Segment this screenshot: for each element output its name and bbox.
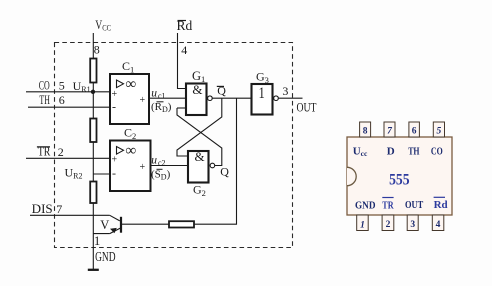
svg-text:+: +	[112, 155, 118, 166]
wire cross-couple G1in to Q	[177, 108, 222, 166]
svg-text:(SD): (SD)	[151, 169, 171, 182]
pin 4 box	[432, 215, 444, 231]
svg-text:∞: ∞	[126, 77, 137, 93]
wire CO pin5	[26, 91, 110, 93]
wire TH pin6	[28, 106, 110, 108]
svg-text:+: +	[140, 95, 146, 106]
nand gate G2	[188, 149, 215, 182]
wire G1 input3	[177, 107, 186, 109]
resistor R1	[90, 59, 96, 83]
svg-text:G3: G3	[256, 70, 269, 86]
svg-text:8: 8	[363, 127, 368, 137]
svg-text:(RD): (RD)	[151, 101, 172, 114]
svg-text:Rd: Rd	[434, 199, 448, 211]
wire R2 to R3	[92, 142, 94, 182]
comparator C1	[110, 74, 149, 124]
svg-text:5: 5	[437, 127, 442, 137]
resistor R4	[169, 221, 194, 227]
svg-text:V: V	[100, 218, 109, 232]
svg-text:u: u	[151, 154, 157, 166]
svg-text:1: 1	[94, 234, 100, 248]
svg-text:1: 1	[360, 221, 365, 231]
svg-text:TR: TR	[38, 144, 51, 159]
wire base to R4	[121, 223, 169, 225]
svg-text:4: 4	[181, 43, 187, 57]
ground	[88, 269, 99, 271]
svg-text:6: 6	[59, 93, 65, 107]
svg-text:-: -	[112, 100, 116, 114]
wire R1 to node	[92, 83, 94, 93]
svg-text:∞: ∞	[126, 143, 137, 159]
pin 7 box	[384, 122, 395, 137]
svg-text:C1: C1	[122, 59, 134, 75]
svg-text:-: -	[112, 166, 116, 180]
wire cross-couple Qbar to G2in	[177, 98, 222, 156]
pin 3 box	[407, 215, 418, 231]
label TR with overline	[382, 198, 394, 212]
wire uc1 C1 to G1	[149, 97, 186, 99]
wire DIS pin7 collector	[30, 214, 110, 216]
svg-text:+: +	[140, 162, 146, 173]
pin 6 box	[409, 122, 420, 137]
svg-text:c2: c2	[158, 158, 166, 167]
wire TR pin2	[26, 157, 110, 159]
svg-text:TH: TH	[39, 92, 50, 107]
package notch	[347, 167, 356, 185]
wire R3 down to GND	[92, 203, 94, 270]
svg-text:UR2: UR2	[65, 166, 83, 181]
transistor V	[93, 215, 121, 233]
wire uc2 C2 to G2	[151, 165, 189, 167]
svg-text:GND: GND	[95, 249, 116, 264]
svg-text:5: 5	[59, 79, 65, 93]
555 package body	[347, 137, 452, 215]
label (RD) with overline	[151, 101, 172, 114]
wire Qbar net	[212, 97, 251, 99]
svg-text:7: 7	[56, 202, 62, 216]
svg-text:G2: G2	[193, 183, 206, 199]
wire Rd pin4 down	[178, 33, 187, 89]
svg-text:OUT: OUT	[405, 199, 424, 211]
svg-text:Q: Q	[217, 84, 226, 98]
label Qbar	[217, 84, 227, 98]
svg-text:3: 3	[282, 84, 288, 98]
svg-text:GND: GND	[355, 200, 376, 212]
svg-text:CO: CO	[39, 78, 50, 93]
Vcc label	[95, 18, 111, 32]
dashed IC boundary box	[55, 43, 293, 248]
svg-text:8: 8	[94, 43, 100, 57]
svg-text:C2: C2	[124, 126, 136, 142]
svg-text:Q: Q	[220, 165, 229, 179]
inverter G3	[252, 84, 279, 115]
svg-text:u: u	[151, 87, 157, 99]
pin 2 box	[382, 215, 394, 231]
wire R4 to Qbar feedback	[194, 98, 237, 224]
svg-text:G1: G1	[192, 69, 205, 84]
pin 5 box	[433, 122, 444, 137]
svg-text:6: 6	[412, 127, 417, 137]
wire OUT pin3	[278, 97, 302, 99]
wire node U_R2 to C2 minus	[93, 173, 110, 175]
label Rd with overline	[434, 197, 448, 211]
wire node to R2	[92, 92, 94, 119]
svg-text:2: 2	[386, 220, 391, 230]
svg-text:CO: CO	[431, 146, 443, 158]
pin 1 box	[357, 215, 369, 231]
svg-text:c1: c1	[158, 91, 166, 100]
svg-text:1: 1	[259, 85, 265, 102]
svg-text:4: 4	[436, 220, 441, 230]
svg-text:TH: TH	[408, 146, 420, 158]
svg-text:VCC: VCC	[95, 18, 111, 32]
label TR with overline	[37, 144, 51, 159]
svg-text:555: 555	[389, 172, 410, 189]
pin 8 box	[360, 122, 371, 137]
svg-text:2: 2	[58, 145, 64, 159]
svg-text:&: &	[195, 149, 205, 164]
svg-text:DIS: DIS	[32, 201, 53, 216]
resistor R2	[90, 119, 96, 143]
nand gate G1	[186, 82, 212, 115]
svg-text:+: +	[112, 89, 118, 100]
resistor R3	[90, 182, 96, 204]
comparator C2	[110, 141, 151, 192]
node U_R1 junction dot	[91, 90, 95, 94]
svg-text:OUT: OUT	[297, 101, 317, 115]
svg-text:3: 3	[410, 220, 415, 230]
svg-text:TR: TR	[382, 200, 394, 212]
wire Vcc down	[92, 33, 94, 59]
svg-text:&: &	[192, 82, 202, 97]
label (SD) with overline	[151, 169, 171, 182]
Rd top label with overline	[177, 18, 193, 33]
svg-text:D: D	[387, 146, 395, 158]
